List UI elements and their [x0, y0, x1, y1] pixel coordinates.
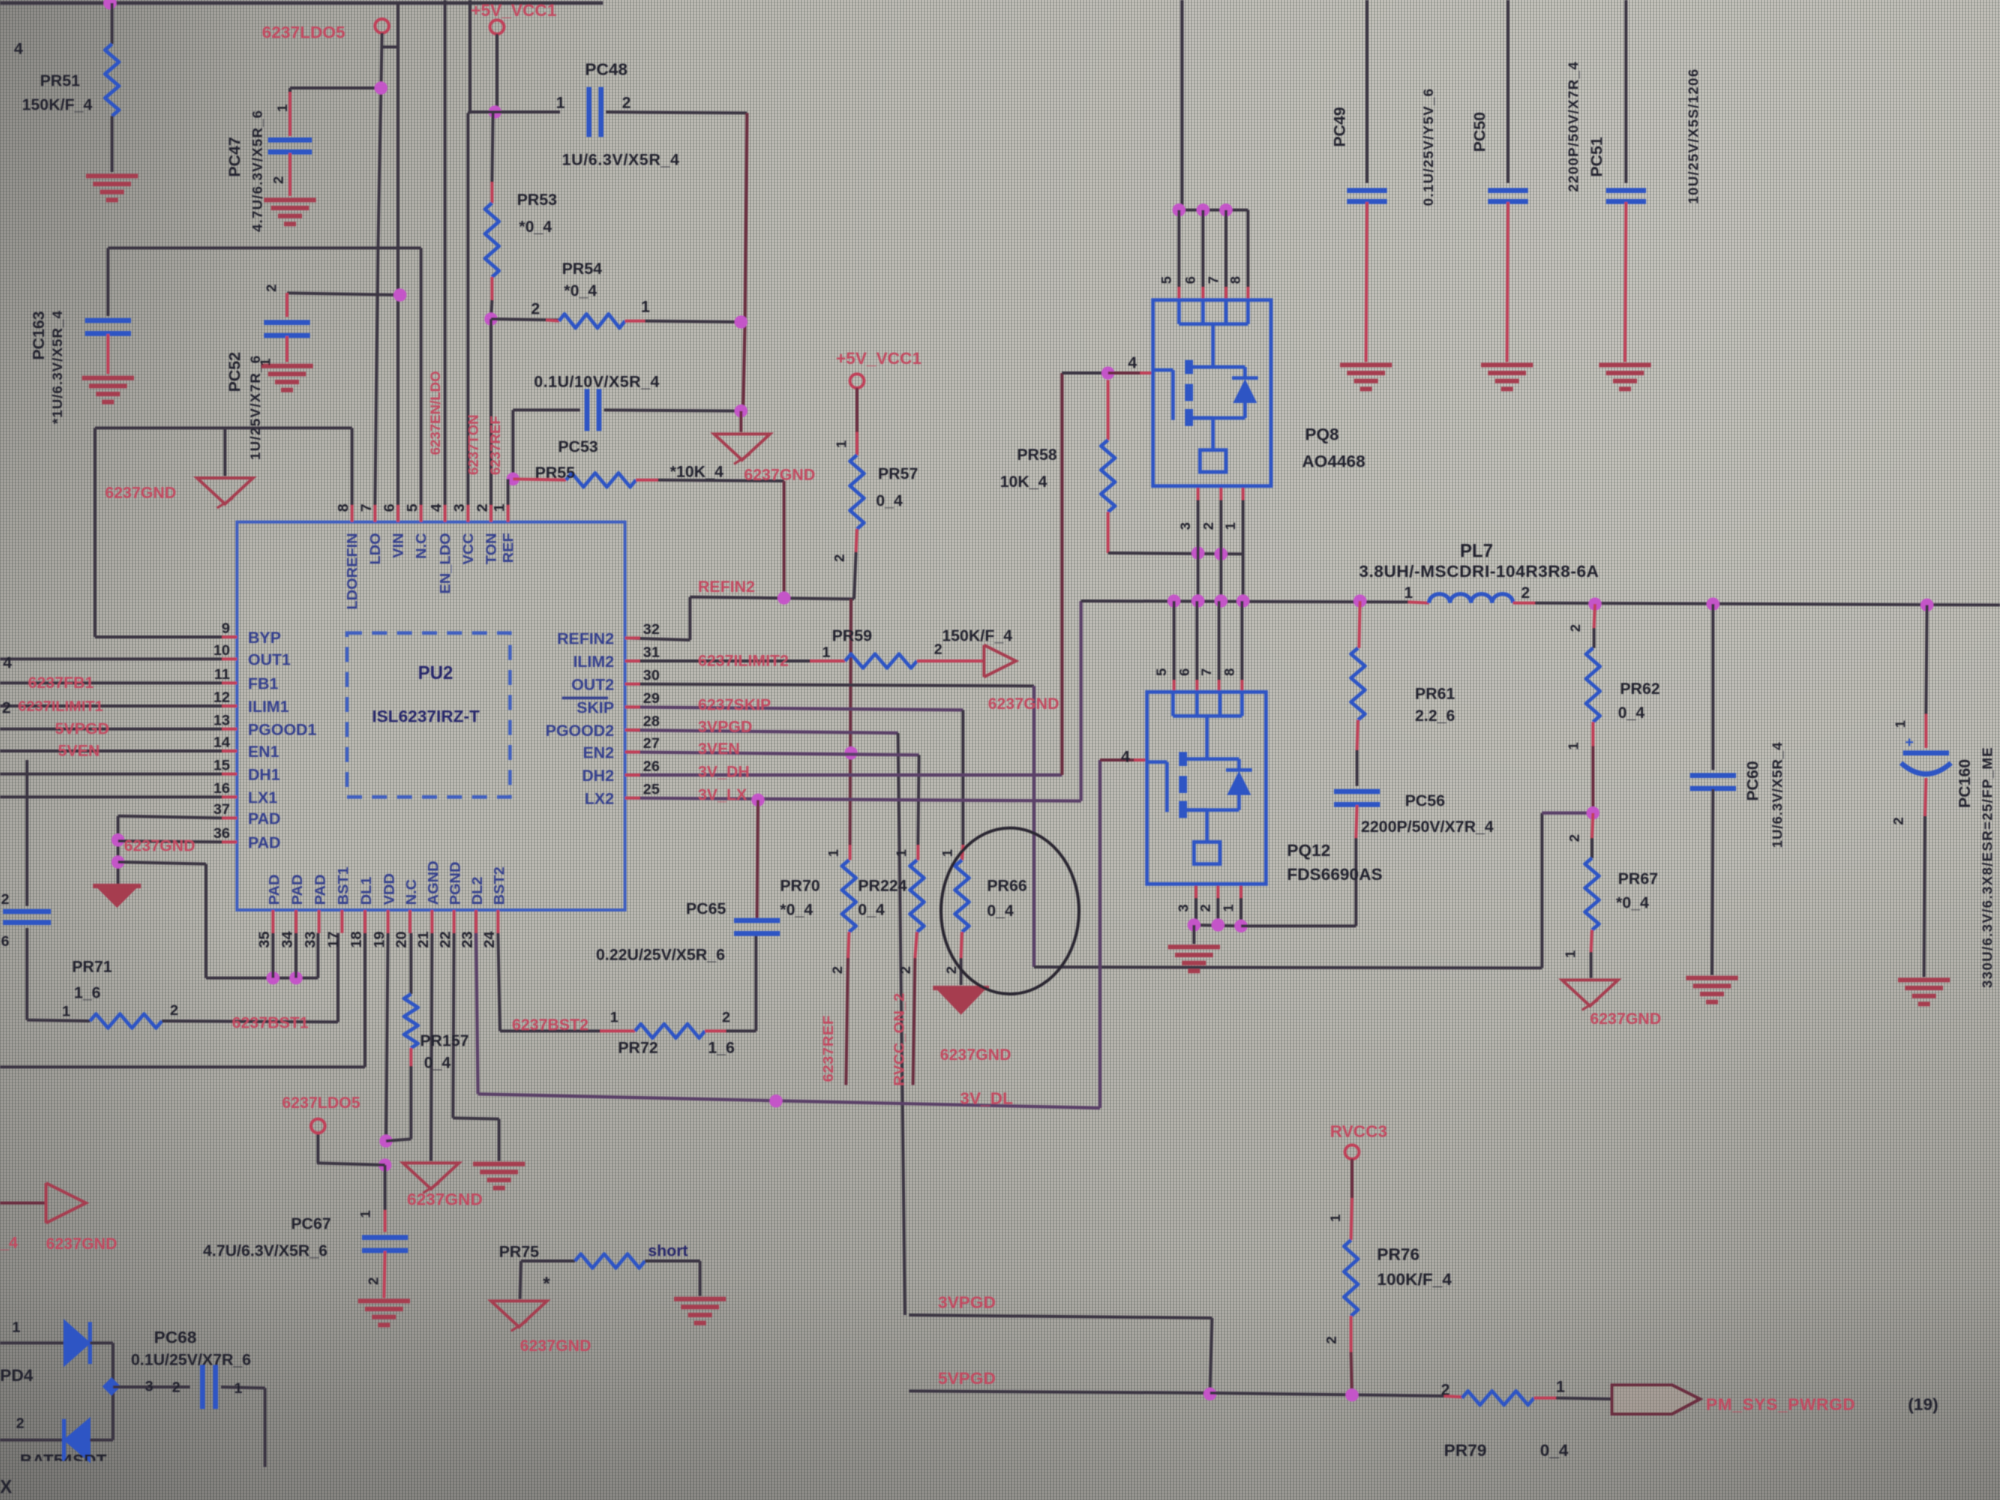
svg-text:*0_4: *0_4	[564, 283, 597, 300]
svg-text:2200P/50V/X7R_4: 2200P/50V/X7R_4	[1361, 819, 1494, 836]
svg-text:4: 4	[1128, 355, 1137, 372]
svg-text:12: 12	[213, 689, 230, 706]
svg-text:PAD: PAD	[248, 835, 281, 852]
svg-text:*0_4: *0_4	[519, 219, 552, 236]
svg-text:PC49: PC49	[1332, 107, 1349, 147]
svg-text:31: 31	[643, 644, 660, 661]
svg-text:TON: TON	[483, 533, 500, 564]
svg-text:PC67: PC67	[291, 1216, 331, 1233]
svg-text:35: 35	[256, 931, 273, 948]
svg-text:16: 16	[213, 780, 230, 797]
svg-text:3VEN: 3VEN	[698, 741, 740, 758]
svg-text:PR70: PR70	[780, 878, 820, 895]
svg-text:28: 28	[643, 713, 660, 730]
svg-text:33: 33	[302, 931, 319, 948]
svg-text:2: 2	[1890, 817, 1906, 825]
svg-text:LX2: LX2	[585, 791, 614, 808]
svg-text:PC163: PC163	[31, 311, 48, 360]
svg-text:2: 2	[531, 301, 540, 318]
svg-text:6: 6	[1, 933, 9, 950]
svg-text:DH2: DH2	[582, 768, 614, 785]
svg-text:PR157: PR157	[420, 1033, 469, 1050]
svg-text:*0_4: *0_4	[780, 902, 813, 919]
svg-text:X: X	[0, 1477, 12, 1497]
svg-text:1U/6.3V/X5R_4: 1U/6.3V/X5R_4	[1769, 742, 1785, 848]
svg-text:DL2: DL2	[469, 877, 486, 905]
svg-text:*0_4: *0_4	[1616, 895, 1649, 912]
svg-text:7: 7	[1198, 668, 1214, 676]
svg-text:0.1U/25V/Y5V_6: 0.1U/25V/Y5V_6	[1420, 88, 1436, 206]
svg-text:short: short	[648, 1243, 689, 1260]
svg-text:AGND: AGND	[425, 861, 442, 905]
svg-text:6237FB1: 6237FB1	[28, 675, 94, 692]
svg-text:2: 2	[170, 1002, 178, 1019]
svg-text:PC51: PC51	[1589, 137, 1606, 177]
svg-text:3VPGD: 3VPGD	[698, 719, 752, 736]
svg-text:3: 3	[1177, 522, 1193, 530]
svg-text:1_6: 1_6	[74, 985, 101, 1002]
svg-text:3: 3	[451, 504, 468, 512]
svg-text:1: 1	[12, 1319, 20, 1336]
svg-text:PR75: PR75	[499, 1244, 539, 1261]
svg-text:PR54: PR54	[562, 261, 602, 278]
svg-text:14: 14	[213, 734, 230, 751]
svg-text:2.2_6: 2.2_6	[1415, 708, 1455, 725]
svg-text:0_4: 0_4	[1618, 705, 1645, 722]
svg-text:5: 5	[404, 504, 421, 512]
svg-text:5VPGD: 5VPGD	[55, 721, 109, 738]
svg-text:18: 18	[348, 931, 365, 948]
svg-text:+5V_VCC1: +5V_VCC1	[471, 1, 557, 20]
svg-text:N.C: N.C	[403, 879, 420, 905]
svg-text:PR76: PR76	[1377, 1245, 1420, 1264]
svg-text:PR55: PR55	[535, 465, 575, 482]
svg-text:PC50: PC50	[1472, 112, 1489, 152]
svg-text:N.C: N.C	[413, 533, 430, 559]
svg-text:100K/F_4: 100K/F_4	[1377, 1270, 1452, 1289]
svg-text:PU2: PU2	[418, 663, 453, 683]
svg-text:REFIN2: REFIN2	[698, 579, 755, 596]
svg-text:OUT2: OUT2	[571, 677, 614, 694]
svg-text:REF: REF	[500, 533, 517, 563]
svg-text:2: 2	[172, 1379, 180, 1396]
svg-text:BYP: BYP	[248, 630, 281, 647]
svg-text:1: 1	[1404, 585, 1413, 602]
svg-text:8: 8	[1227, 276, 1243, 284]
svg-text:330U/6.3V/6.3X8/ESR=25/FP_ME: 330U/6.3V/6.3X8/ESR=25/FP_ME	[1979, 746, 1995, 988]
svg-text:PQ12: PQ12	[1287, 841, 1330, 860]
svg-text:9: 9	[222, 620, 230, 637]
svg-text:1: 1	[357, 1210, 373, 1218]
svg-text:3.8UH/-MSCDRI-104R3R8-6A: 3.8UH/-MSCDRI-104R3R8-6A	[1359, 562, 1599, 581]
svg-text:+: +	[1905, 734, 1914, 751]
svg-text:1: 1	[939, 849, 955, 857]
svg-text:23: 23	[459, 931, 476, 948]
svg-text:2: 2	[474, 504, 491, 512]
svg-text:5VPGD: 5VPGD	[938, 1369, 996, 1388]
svg-text:6237GND: 6237GND	[1590, 1011, 1661, 1028]
svg-text:PC56: PC56	[1405, 793, 1445, 810]
svg-text:2: 2	[622, 95, 631, 112]
svg-text:2: 2	[934, 641, 942, 658]
svg-text:PL7: PL7	[1460, 541, 1493, 561]
svg-text:6237LDO5: 6237LDO5	[262, 23, 345, 42]
svg-text:PD4: PD4	[0, 1366, 34, 1385]
svg-text:OUT1: OUT1	[248, 652, 291, 669]
svg-text:1: 1	[62, 1003, 70, 1020]
svg-text:10K_4: 10K_4	[1000, 474, 1047, 491]
svg-text:BST2: BST2	[491, 867, 508, 905]
svg-text:1: 1	[556, 95, 565, 112]
svg-text:6237REF: 6237REF	[820, 1015, 837, 1082]
svg-text:PR71: PR71	[72, 959, 112, 976]
svg-text:3V_LX: 3V_LX	[698, 787, 747, 804]
svg-text:DL1: DL1	[358, 877, 375, 905]
svg-text:_4: _4	[0, 1235, 18, 1252]
svg-text:2: 2	[1, 891, 9, 908]
svg-text:6237EN/LDO: 6237EN/LDO	[427, 371, 443, 455]
svg-text:8: 8	[1221, 668, 1237, 676]
svg-text:*: *	[543, 1274, 550, 1294]
svg-text:PR67: PR67	[1618, 871, 1658, 888]
svg-text:PR61: PR61	[1415, 686, 1455, 703]
svg-text:PGOOD2: PGOOD2	[546, 723, 615, 740]
svg-text:2: 2	[943, 966, 959, 974]
svg-text:1: 1	[491, 504, 508, 512]
svg-text:5: 5	[1158, 276, 1174, 284]
svg-text:PR59: PR59	[832, 628, 872, 645]
svg-text:6237GND: 6237GND	[744, 467, 815, 484]
svg-text:2: 2	[2, 700, 11, 717]
svg-text:RVCC_ON_2: RVCC_ON_2	[891, 993, 908, 1086]
svg-text:6237GND: 6237GND	[988, 696, 1059, 713]
svg-text:LX1: LX1	[248, 790, 277, 807]
svg-text:1: 1	[833, 440, 849, 448]
svg-text:25: 25	[643, 781, 660, 798]
svg-text:PR79: PR79	[1444, 1441, 1487, 1460]
svg-text:4: 4	[428, 503, 445, 512]
svg-text:PAD: PAD	[266, 874, 283, 905]
svg-text:6237REF: 6237REF	[487, 415, 503, 475]
svg-text:0_4: 0_4	[987, 903, 1014, 920]
svg-text:0_4: 0_4	[858, 902, 885, 919]
svg-text:11: 11	[214, 666, 230, 683]
svg-text:VCC: VCC	[460, 533, 477, 565]
svg-text:3: 3	[145, 1378, 153, 1395]
svg-text:2: 2	[1200, 522, 1216, 530]
svg-text:PAD: PAD	[312, 874, 329, 905]
svg-text:LDO: LDO	[367, 533, 384, 565]
svg-text:(19): (19)	[1908, 1395, 1938, 1414]
svg-text:6237BST2: 6237BST2	[512, 1017, 589, 1034]
svg-text:PQ8: PQ8	[1305, 425, 1339, 444]
svg-text:2: 2	[897, 966, 913, 974]
svg-text:VIN: VIN	[390, 533, 407, 558]
svg-text:4: 4	[14, 41, 23, 58]
svg-text:1: 1	[1327, 1214, 1343, 1222]
svg-text:36: 36	[213, 825, 230, 842]
svg-text:PC60: PC60	[1745, 761, 1762, 801]
svg-text:ISL6237IRZ-T: ISL6237IRZ-T	[372, 707, 480, 726]
svg-text:AO4468: AO4468	[1302, 452, 1365, 471]
svg-text:VDD: VDD	[381, 873, 398, 905]
svg-text:1U/25V/X7R_6: 1U/25V/X7R_6	[247, 355, 263, 460]
svg-text:1_6: 1_6	[708, 1040, 735, 1057]
svg-text:2: 2	[1197, 904, 1213, 912]
svg-text:PR57: PR57	[878, 466, 918, 483]
svg-text:2: 2	[1521, 585, 1530, 602]
svg-text:37: 37	[213, 801, 230, 818]
svg-text:PR66: PR66	[987, 878, 1027, 895]
svg-text:1: 1	[1892, 720, 1908, 728]
svg-text:PC160: PC160	[1957, 759, 1974, 808]
svg-text:PGOOD1: PGOOD1	[248, 722, 317, 739]
svg-text:5VEN: 5VEN	[58, 743, 100, 760]
svg-text:PM_SYS_PWRGD: PM_SYS_PWRGD	[1706, 1395, 1856, 1414]
svg-text:6237GND: 6237GND	[407, 1190, 483, 1209]
svg-text:PR62: PR62	[1620, 681, 1660, 698]
svg-text:PC68: PC68	[154, 1328, 197, 1347]
svg-text:2: 2	[270, 176, 286, 184]
svg-text:*1U/6.3V/X5R_4: *1U/6.3V/X5R_4	[49, 310, 65, 424]
svg-text:1: 1	[893, 849, 909, 857]
svg-text:1: 1	[641, 299, 650, 316]
svg-text:0.22U/25V/X5R_6: 0.22U/25V/X5R_6	[596, 947, 725, 964]
svg-text:17: 17	[325, 931, 342, 948]
svg-text:150K/F_4: 150K/F_4	[942, 628, 1012, 645]
svg-text:2: 2	[1567, 624, 1583, 632]
svg-text:1: 1	[274, 104, 290, 112]
svg-text:PGND: PGND	[447, 861, 464, 905]
svg-text:22: 22	[437, 931, 454, 948]
svg-text:EN1: EN1	[248, 744, 279, 761]
svg-text:5: 5	[1153, 668, 1169, 676]
svg-text:10: 10	[213, 642, 230, 659]
svg-text:4.7U/6.3V/X5R_6: 4.7U/6.3V/X5R_6	[249, 110, 265, 232]
svg-text:ILIM2: ILIM2	[573, 654, 614, 671]
svg-text:PC65: PC65	[686, 901, 726, 918]
svg-text:3V_DL: 3V_DL	[960, 1089, 1013, 1108]
svg-text:6237ILIMIT2: 6237ILIMIT2	[698, 653, 789, 670]
svg-text:*10K_4: *10K_4	[670, 464, 723, 481]
svg-text:FDS6690AS: FDS6690AS	[1287, 865, 1382, 884]
svg-text:2: 2	[1441, 1382, 1450, 1399]
svg-text:1: 1	[1565, 742, 1581, 750]
svg-text:2: 2	[16, 1415, 24, 1432]
svg-text:24: 24	[481, 931, 498, 948]
svg-text:0_4: 0_4	[424, 1055, 451, 1072]
svg-text:7: 7	[358, 504, 375, 512]
svg-text:0.1U/10V/X5R_4: 0.1U/10V/X5R_4	[534, 374, 660, 391]
svg-text:6: 6	[1182, 276, 1198, 284]
svg-text:FB1: FB1	[248, 676, 278, 693]
svg-text:34: 34	[279, 931, 296, 948]
svg-text:0_4: 0_4	[1540, 1441, 1569, 1460]
svg-text:20: 20	[393, 931, 410, 948]
svg-text:1: 1	[610, 1009, 618, 1026]
svg-text:13: 13	[213, 712, 230, 729]
svg-text:0_4: 0_4	[876, 493, 903, 510]
svg-text:6237GND: 6237GND	[105, 485, 176, 502]
svg-text:6237TON: 6237TON	[465, 415, 481, 475]
svg-text:2: 2	[722, 1009, 730, 1026]
svg-text:6237ILIMIT1: 6237ILIMIT1	[18, 698, 103, 715]
svg-text:3V_DH: 3V_DH	[698, 764, 750, 781]
svg-text:PR224: PR224	[858, 878, 907, 895]
svg-text:6237GND: 6237GND	[520, 1338, 591, 1355]
svg-text:2: 2	[1323, 1336, 1339, 1344]
svg-text:PC53: PC53	[558, 439, 598, 456]
svg-text:29: 29	[643, 690, 660, 707]
svg-text:19: 19	[371, 931, 388, 948]
svg-text:PR72: PR72	[618, 1040, 658, 1057]
svg-text:10U/25V/X5S/1206: 10U/25V/X5S/1206	[1685, 68, 1701, 204]
svg-text:4.7U/6.3V/X5R_6: 4.7U/6.3V/X5R_6	[203, 1243, 328, 1260]
svg-text:RVCC3: RVCC3	[1330, 1122, 1387, 1141]
svg-text:1: 1	[1222, 522, 1238, 530]
svg-text:2: 2	[1566, 834, 1582, 842]
svg-text:PAD: PAD	[248, 811, 281, 828]
svg-text:1: 1	[1562, 950, 1578, 958]
svg-text:6237BST1: 6237BST1	[232, 1015, 309, 1032]
svg-text:1: 1	[1220, 904, 1236, 912]
svg-text:PR53: PR53	[517, 192, 557, 209]
svg-text:6237GND: 6237GND	[46, 1236, 117, 1253]
svg-text:2200P/50V/X7R_4: 2200P/50V/X7R_4	[1565, 61, 1581, 192]
svg-text:6237GND: 6237GND	[940, 1047, 1011, 1064]
svg-text:15: 15	[213, 757, 230, 774]
svg-text:PC48: PC48	[585, 60, 628, 79]
svg-text:1: 1	[825, 849, 841, 857]
svg-text:6237LDO5: 6237LDO5	[282, 1095, 360, 1112]
svg-text:7: 7	[1205, 276, 1221, 284]
svg-text:6: 6	[381, 504, 398, 512]
svg-text:PR51: PR51	[40, 73, 80, 90]
svg-text:4: 4	[3, 655, 12, 672]
svg-text:26: 26	[643, 758, 660, 775]
svg-text:DH1: DH1	[248, 767, 280, 784]
svg-text:30: 30	[643, 667, 660, 684]
svg-text:6: 6	[1176, 668, 1192, 676]
svg-text:1: 1	[1556, 1379, 1565, 1396]
svg-text:2: 2	[365, 1277, 381, 1285]
svg-text:27: 27	[643, 735, 660, 752]
svg-text:3: 3	[1175, 904, 1191, 912]
svg-text:3VPGD: 3VPGD	[938, 1293, 996, 1312]
svg-text:EN_LDO: EN_LDO	[437, 533, 454, 594]
svg-text:150K/F_4: 150K/F_4	[22, 97, 92, 114]
svg-text:LDOREFIN: LDOREFIN	[344, 533, 361, 610]
svg-text:PC52: PC52	[227, 352, 244, 392]
svg-text:0.1U/25V/X7R_6: 0.1U/25V/X7R_6	[131, 1352, 251, 1369]
svg-text:BST1: BST1	[335, 867, 352, 905]
svg-text:1: 1	[822, 644, 830, 661]
svg-text:8: 8	[335, 504, 352, 512]
svg-text:1: 1	[234, 1380, 242, 1397]
svg-text:+5V_VCC1: +5V_VCC1	[836, 349, 922, 368]
svg-text:2: 2	[263, 284, 279, 292]
svg-text:6237SKIP: 6237SKIP	[698, 697, 771, 714]
svg-text:PC47: PC47	[227, 137, 244, 177]
svg-text:PAD: PAD	[289, 874, 306, 905]
svg-text:REFIN2: REFIN2	[557, 631, 614, 648]
svg-text:6237GND: 6237GND	[124, 838, 195, 855]
svg-text:SKIP: SKIP	[577, 700, 615, 717]
svg-text:2: 2	[829, 966, 845, 974]
svg-text:32: 32	[643, 621, 660, 638]
svg-text:1: 1	[257, 358, 273, 366]
svg-text:4: 4	[1121, 749, 1130, 766]
svg-text:PR58: PR58	[1017, 447, 1057, 464]
svg-text:EN2: EN2	[583, 745, 614, 762]
svg-text:21: 21	[415, 931, 432, 948]
svg-text:2: 2	[831, 554, 847, 562]
svg-text:1U/6.3V/X5R_4: 1U/6.3V/X5R_4	[562, 152, 680, 169]
svg-text:ILIM1: ILIM1	[248, 699, 289, 716]
